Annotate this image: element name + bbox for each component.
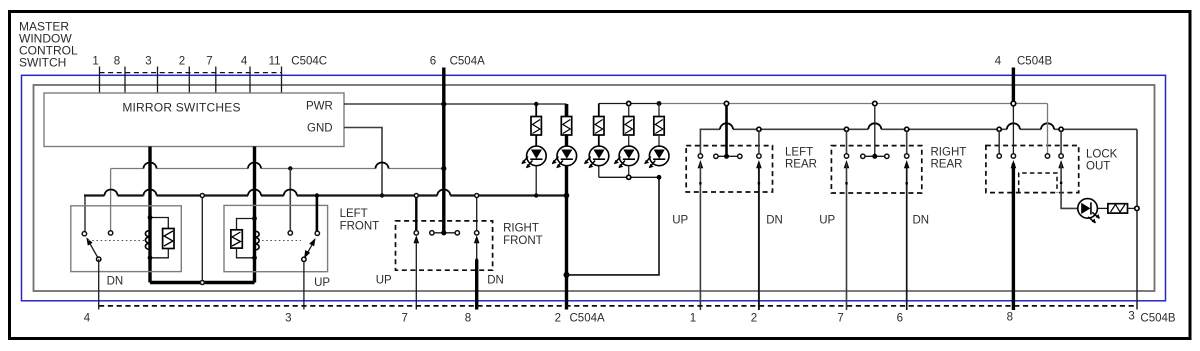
wire pin8 drop thick xyxy=(475,260,478,310)
svg-text:DN: DN xyxy=(913,215,930,227)
node right rear up ring xyxy=(844,154,848,158)
blue inner border xyxy=(22,75,1166,300)
svg-text:LEFT: LEFT xyxy=(785,147,813,159)
wire hop ground rail over gray drop xyxy=(105,190,118,196)
wire lockout dn to LED xyxy=(1061,164,1078,209)
svg-text:2: 2 xyxy=(555,313,561,325)
wire right front up contact xyxy=(415,198,417,231)
wire LED D3 cathode xyxy=(598,166,600,178)
wire hop ground rail over 6C504A xyxy=(437,190,450,196)
wire right rear dn stub xyxy=(906,131,908,153)
wire hop ground rail over relay wire 1 xyxy=(144,190,157,196)
mechanical link dotted left xyxy=(88,240,145,242)
junction right switch tap xyxy=(315,193,319,197)
wire indicator return xyxy=(567,177,660,275)
resistor R6 lockout xyxy=(1108,204,1128,213)
junction relay K1 top xyxy=(148,215,153,220)
pin 1 tick wire xyxy=(99,67,101,94)
wire LED D4 cathode xyxy=(628,166,630,177)
svg-text:6: 6 xyxy=(897,313,903,325)
svg-text:MIRROR SWITCHES: MIRROR SWITCHES xyxy=(122,101,240,115)
pin 4 tick wire xyxy=(249,67,251,94)
wire left rear dn stub xyxy=(758,131,760,153)
arrow right switch arm lower xyxy=(304,250,310,259)
junction gauge dot pin2 xyxy=(758,182,760,184)
junction PWR resistor R1 tap xyxy=(534,102,538,106)
junction gauge dot pin6 xyxy=(906,182,908,184)
wire relay 2 vertical xyxy=(253,147,256,283)
svg-text:8: 8 xyxy=(465,313,471,325)
junction LED1 to ground rail xyxy=(534,193,538,197)
node ring left rear stem top xyxy=(724,101,728,105)
svg-text:3: 3 xyxy=(285,313,291,325)
svg-text:DN: DN xyxy=(487,275,504,287)
node right switch middle ring xyxy=(288,231,292,235)
wire right middle pin drop xyxy=(289,169,291,231)
node right front up contact ring top xyxy=(414,194,418,198)
resistor R1 xyxy=(531,104,541,146)
node lockout dn ring xyxy=(1059,154,1063,158)
lock out inner dashed box xyxy=(1019,173,1057,193)
svg-text:11: 11 xyxy=(269,56,281,68)
right rear dashed box xyxy=(831,146,921,193)
svg-text:DN: DN xyxy=(766,215,783,227)
wire lockout feed thin xyxy=(1012,106,1014,154)
wire pin2 drop xyxy=(758,164,760,311)
junction relay K2 top xyxy=(252,216,257,221)
wire right front dn tail xyxy=(476,240,478,260)
relay K2 coil xyxy=(255,231,260,250)
svg-text:REAR: REAR xyxy=(931,159,963,171)
svg-text:4: 4 xyxy=(995,56,1002,68)
junction gauge dot xyxy=(476,259,478,261)
svg-text:LEFT: LEFT xyxy=(340,208,368,220)
arrow left rear dn xyxy=(756,160,762,168)
svg-text:C504B: C504B xyxy=(1017,56,1052,68)
junction gauge dot lockout xyxy=(1060,182,1062,184)
wire LED to resistor xyxy=(1097,207,1108,209)
bottom connector dashed line xyxy=(99,305,1135,307)
label LEFT FRONT xyxy=(340,208,380,233)
svg-text:RIGHT: RIGHT xyxy=(931,147,967,159)
arrow right rear dn xyxy=(904,160,910,168)
node left switch pin ring xyxy=(82,232,86,236)
svg-text:UP: UP xyxy=(376,275,392,287)
wire gray power rail y168 xyxy=(111,168,444,170)
junction relay K1 bottom xyxy=(148,255,153,260)
wire left middle pin drop xyxy=(110,169,112,231)
label LEFT REAR xyxy=(785,147,817,171)
wire rear return rail2 xyxy=(700,129,1137,154)
wire hop rail2 over right rear stem xyxy=(868,123,881,129)
relay K1 coil xyxy=(145,230,150,249)
junction gray rail to 6C504A xyxy=(441,166,446,171)
node ring rail2 lockout up tap xyxy=(997,127,1001,131)
pin 8 tick wire xyxy=(124,67,126,94)
gray inner border xyxy=(34,85,1155,291)
wire hop rail2 over lockout gray drop xyxy=(1041,123,1054,129)
wire hop over GND drop xyxy=(376,163,389,169)
left rear T pole xyxy=(714,154,742,159)
title MASTER WINDOW CONTROL SWITCH xyxy=(19,20,78,70)
wire pin6 drop xyxy=(906,164,908,311)
resistor R4 xyxy=(624,106,634,147)
svg-text:LOCK: LOCK xyxy=(1086,149,1118,161)
wire PWR rail xyxy=(344,104,567,117)
wire ground rail y195 xyxy=(84,196,566,232)
node right switch arm pivot ring xyxy=(302,257,306,261)
svg-text:2: 2 xyxy=(179,56,185,68)
LED D1 xyxy=(522,146,547,168)
right front switch dashed box xyxy=(396,221,493,270)
svg-text:6: 6 xyxy=(430,56,436,68)
LED D6 lockout xyxy=(1078,199,1100,224)
node lockout feed ring xyxy=(1011,154,1015,158)
wire 6 C504A vertical feed xyxy=(442,68,445,232)
svg-text:7: 7 xyxy=(837,313,843,325)
arrow lockout dn xyxy=(1058,160,1064,168)
left DN switch arm xyxy=(86,237,98,259)
node ring mid drop bottom xyxy=(200,281,204,285)
junction gauge dot pin1 xyxy=(699,182,701,184)
label LOCK OUT xyxy=(1086,149,1118,173)
node right front dn contact ring xyxy=(475,231,479,235)
right rear T pole xyxy=(861,154,889,159)
junction relay K2 bottom xyxy=(252,255,257,260)
svg-text:8: 8 xyxy=(1007,312,1013,324)
arrow left rear up xyxy=(698,160,704,168)
svg-text:8: 8 xyxy=(114,56,120,68)
junction cathode rail C xyxy=(657,175,662,180)
LED D3 xyxy=(584,146,609,168)
wire hop ground rail over right pin drop xyxy=(284,190,297,196)
node ring rail2 right rear up tap xyxy=(844,127,848,131)
right front common T pole xyxy=(430,230,460,235)
wire right rear stem xyxy=(874,106,876,155)
relay K1 resistor element xyxy=(150,218,174,258)
svg-text:FRONT: FRONT xyxy=(340,221,380,233)
wire hop ground rail over relay wire 2 xyxy=(248,190,261,196)
node ring rail2 right rear dn tap xyxy=(905,127,909,131)
wire hop rail2 over left rear stem xyxy=(720,123,733,129)
svg-text:C504B: C504B xyxy=(1140,313,1175,325)
arrow right rear up xyxy=(844,160,850,168)
node ring rail2 lockout dn tap xyxy=(1059,127,1063,131)
label RIGHT FRONT xyxy=(503,223,543,248)
node ring mid drop top xyxy=(200,194,204,198)
LED D4 xyxy=(614,146,639,168)
junction PWR x 6C504A xyxy=(441,101,446,106)
svg-text:7: 7 xyxy=(401,313,407,325)
wire 4 C504B vertical feed upper xyxy=(1012,68,1015,102)
label RIGHT REAR xyxy=(931,147,967,171)
left front switch box housing xyxy=(71,206,182,272)
wire lockout gray drop xyxy=(1047,104,1049,154)
svg-text:7: 7 xyxy=(206,56,212,68)
LED D2 xyxy=(552,146,577,168)
resistor R2 xyxy=(561,104,571,146)
wire resistor to return xyxy=(1128,207,1135,209)
resistor R3 xyxy=(594,104,604,147)
junction GND to ground rail xyxy=(380,193,384,197)
node left switch middle ring xyxy=(108,231,112,235)
right front switch box housing xyxy=(224,205,328,271)
node ring right rear stem top xyxy=(873,101,877,105)
svg-text:GND: GND xyxy=(307,123,333,135)
wire 2 C504A trunk xyxy=(565,166,568,310)
wire GND branch xyxy=(344,128,382,195)
node right front up contact ring xyxy=(414,231,418,235)
wire relay 1 vertical xyxy=(148,147,151,283)
left rear dashed box xyxy=(686,146,772,192)
wire pin7 rear drop xyxy=(846,164,848,311)
svg-text:4: 4 xyxy=(84,313,91,325)
connector C504C dashed line xyxy=(100,72,282,74)
svg-text:REAR: REAR xyxy=(785,159,817,171)
svg-text:1: 1 xyxy=(690,313,696,325)
svg-text:C504A: C504A xyxy=(450,56,485,68)
pin 11 tick wire xyxy=(281,67,283,94)
svg-text:4: 4 xyxy=(241,56,248,68)
wire right rear up stub xyxy=(846,131,848,153)
svg-text:UP: UP xyxy=(314,277,330,289)
connector C504C pin numbers xyxy=(92,56,327,68)
svg-text:RIGHT: RIGHT xyxy=(503,223,539,235)
svg-text:1: 1 xyxy=(92,56,98,68)
node ring cathode rail B xyxy=(627,175,631,179)
wire lockout up stub xyxy=(998,131,1000,153)
junction rail1 R5 tap xyxy=(657,101,662,106)
svg-text:3: 3 xyxy=(1128,311,1134,323)
pin 2 tick wire xyxy=(188,67,190,94)
svg-text:SWITCH: SWITCH xyxy=(19,56,66,70)
pin 7 tick wire xyxy=(215,67,217,94)
wire LED D1 cathode xyxy=(535,166,537,196)
resistor R5 xyxy=(654,104,664,147)
svg-text:C504A: C504A xyxy=(570,313,605,325)
LED D5 xyxy=(644,146,669,168)
node ring return tap xyxy=(1135,206,1139,210)
node ring rail1 R4 tap xyxy=(627,101,631,105)
arrow right front dn xyxy=(474,235,480,243)
svg-text:DN: DN xyxy=(107,275,124,287)
node lockout gray ring xyxy=(1045,154,1049,158)
bottom pin labels left connector xyxy=(84,313,605,325)
arrow right front up xyxy=(414,235,420,243)
wire pin3 C504B drop xyxy=(1136,129,1138,309)
svg-text:UP: UP xyxy=(819,215,835,227)
svg-text:C504C: C504C xyxy=(291,56,327,68)
svg-text:UP: UP xyxy=(672,215,688,227)
mirror switches box U1 xyxy=(44,93,344,147)
wire hop rail2 over 4C504B xyxy=(1007,123,1020,129)
node lockout up ring xyxy=(997,154,1001,158)
relay K2 resistor element xyxy=(231,219,255,258)
node right rear dn ring xyxy=(905,154,909,158)
svg-text:OUT: OUT xyxy=(1086,161,1110,173)
node 6 C504A label xyxy=(430,56,485,68)
lock out dashed box xyxy=(986,146,1079,193)
arrow lockout feed xyxy=(1011,160,1017,168)
junction trunk y275 xyxy=(564,272,570,278)
bottom pin labels right connector xyxy=(690,311,1176,325)
node left rear dn ring xyxy=(757,154,761,158)
pin 3 tick wire xyxy=(157,67,159,94)
svg-text:3: 3 xyxy=(145,56,151,68)
svg-text:PWR: PWR xyxy=(306,101,333,113)
node right switch pin ring xyxy=(315,231,319,235)
wire right switch feed xyxy=(316,196,319,232)
node 4 C504B label xyxy=(995,56,1053,68)
node left rear up ring xyxy=(698,154,702,158)
wire hop over relay wire 1 xyxy=(144,163,157,169)
junction gauge dot pin7 xyxy=(845,182,847,184)
svg-text:FRONT: FRONT xyxy=(503,235,543,247)
node ring 4C504B rail1 junction xyxy=(1011,101,1016,106)
wire rear power rail1 xyxy=(599,103,1048,105)
wire pin4 drop xyxy=(98,259,100,309)
wire LED trio cathode rail xyxy=(599,176,659,178)
wire left rear stem xyxy=(725,106,728,155)
wire pin7 drop xyxy=(415,240,417,310)
wire pin3 drop xyxy=(303,261,305,309)
wire pin1 drop xyxy=(699,164,701,311)
junction thick wire to ground rail xyxy=(564,193,570,199)
wire lockout dn stub xyxy=(1060,131,1062,153)
node left switch arm pivot ring xyxy=(97,257,101,261)
svg-text:2: 2 xyxy=(751,313,757,325)
mechanical link dotted right xyxy=(262,240,301,242)
wire pin8 drop thick xyxy=(1012,164,1015,311)
right UP switch arm xyxy=(304,238,316,259)
junction gray rail to right box pin xyxy=(288,166,292,170)
wire thick bottom link xyxy=(150,281,255,284)
wire mid drop xyxy=(201,198,203,281)
node ring rail2 left rear dn tap xyxy=(757,127,761,131)
wire hop over relay wire 2 xyxy=(248,163,261,169)
wire right front dn contact xyxy=(476,198,478,231)
node right front dn contact ring top xyxy=(475,194,479,198)
